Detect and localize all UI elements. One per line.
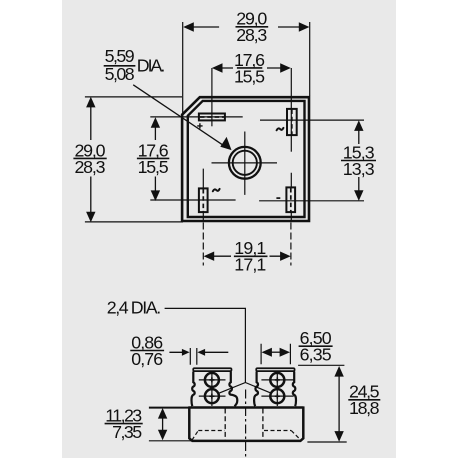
svg-text:15,5: 15,5 — [234, 66, 265, 86]
svg-text:28,3: 28,3 — [236, 25, 267, 45]
svg-text:2,4 DIA.: 2,4 DIA. — [107, 298, 162, 318]
svg-text:7,35: 7,35 — [112, 422, 142, 442]
svg-text:15,5: 15,5 — [138, 157, 169, 177]
svg-text:DIA.: DIA. — [137, 56, 166, 76]
svg-text:0,76: 0,76 — [131, 349, 163, 369]
svg-text:6,35: 6,35 — [300, 345, 332, 365]
svg-text:18,8: 18,8 — [349, 398, 380, 418]
svg-text:17,1: 17,1 — [234, 255, 266, 275]
svg-text:13,3: 13,3 — [343, 159, 375, 179]
svg-text:28,3: 28,3 — [75, 157, 106, 177]
svg-text:5,59: 5,59 — [105, 46, 135, 66]
svg-text:5,08: 5,08 — [105, 64, 135, 84]
